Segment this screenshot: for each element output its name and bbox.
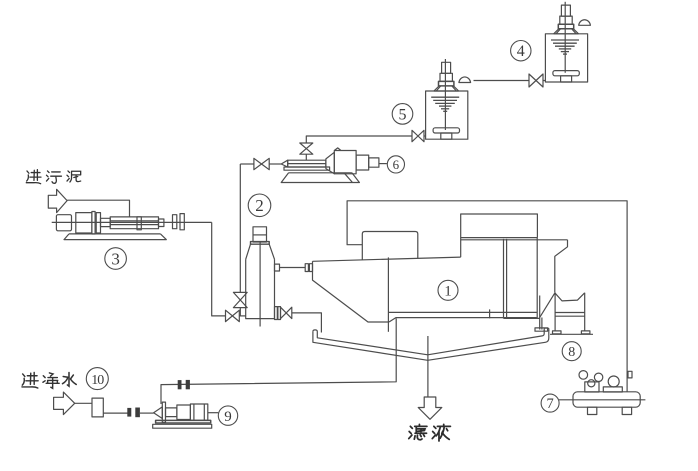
svg-text:1: 1 <box>444 284 452 300</box>
svg-text:3: 3 <box>111 249 120 268</box>
svg-text:2: 2 <box>255 196 264 215</box>
svg-text:9: 9 <box>224 409 232 425</box>
svg-text:5: 5 <box>399 106 407 123</box>
svg-text:10: 10 <box>91 373 104 388</box>
svg-text:4: 4 <box>517 43 525 60</box>
svg-text:8: 8 <box>568 345 575 360</box>
svg-text:6: 6 <box>393 157 400 172</box>
svg-text:7: 7 <box>546 396 553 412</box>
